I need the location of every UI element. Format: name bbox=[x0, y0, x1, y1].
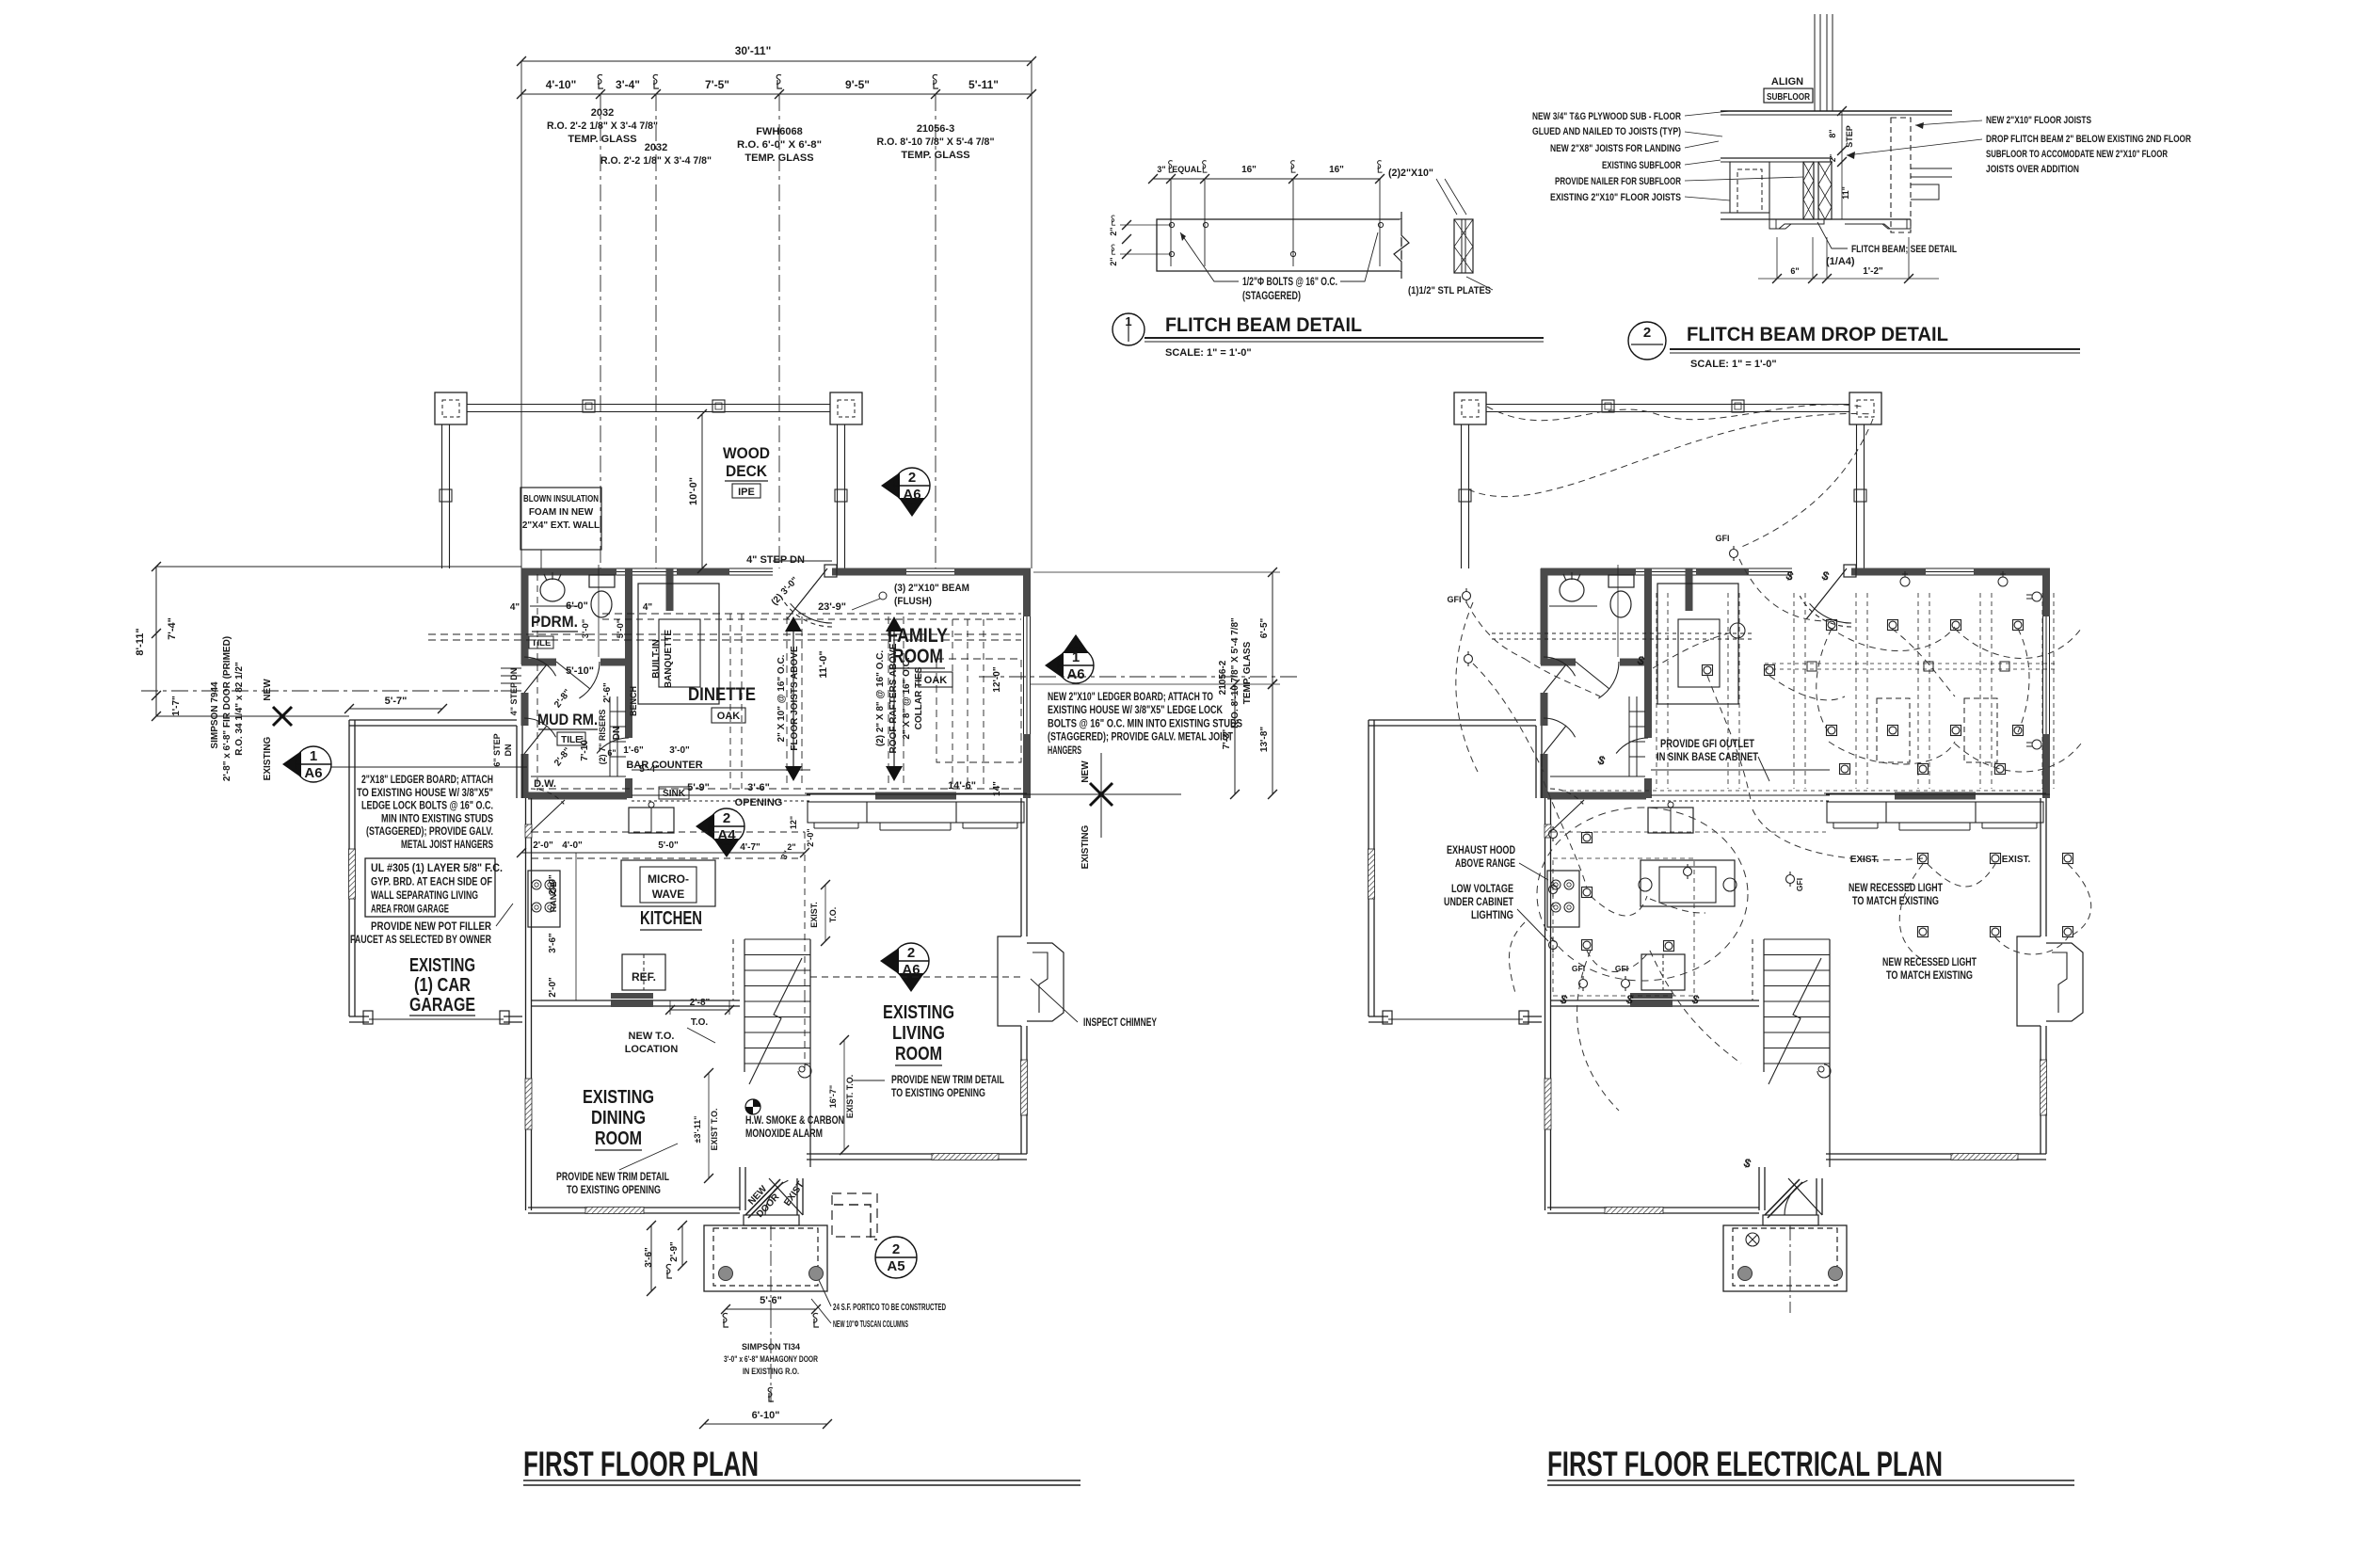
svg-text:1'-7": 1'-7" bbox=[171, 696, 182, 716]
svg-text:4'-0": 4'-0" bbox=[562, 840, 583, 851]
svg-text:4" STEP DN: 4" STEP DN bbox=[509, 668, 519, 716]
svg-text:2": 2" bbox=[1829, 154, 1837, 162]
wood deck posts bbox=[435, 392, 467, 424]
svg-text:2": 2" bbox=[787, 842, 795, 852]
svg-text:PDRM.: PDRM. bbox=[531, 613, 578, 631]
svg-text:(3) 2"X10" BEAM: (3) 2"X10" BEAM bbox=[894, 583, 969, 594]
svg-text:WALL SEPARATING LIVING: WALL SEPARATING LIVING bbox=[371, 890, 478, 902]
built-in cabinets row bbox=[805, 792, 875, 794]
svg-text:EXISTING SUBFLOOR: EXISTING SUBFLOOR bbox=[1602, 160, 1681, 171]
svg-text:EXISTING: EXISTING bbox=[883, 1002, 954, 1023]
living room east wall bbox=[1020, 798, 1022, 936]
svg-text:REF.: REF. bbox=[632, 970, 656, 984]
family room south wall bbox=[875, 792, 956, 800]
svg-text:TEMP. GLASS: TEMP. GLASS bbox=[1242, 641, 1253, 704]
svg-text:ABOVE RANGE: ABOVE RANGE bbox=[1455, 858, 1515, 870]
svg-text:21056-3: 21056-3 bbox=[917, 123, 954, 135]
svg-text:2: 2 bbox=[908, 470, 916, 486]
svg-text:1'-6": 1'-6" bbox=[623, 745, 644, 756]
svg-text:2": 2" bbox=[1109, 227, 1118, 235]
svg-text:LIVING: LIVING bbox=[892, 1023, 945, 1044]
garage walls bbox=[349, 719, 517, 721]
svg-text:9'-5": 9'-5" bbox=[845, 78, 870, 91]
section marker 1/A6 east bbox=[1045, 634, 1094, 683]
svg-text:12'-0": 12'-0" bbox=[992, 666, 1002, 692]
svg-text:GFI: GFI bbox=[1448, 595, 1462, 604]
flitch beam detail drawing bbox=[1157, 219, 1401, 271]
svg-text:TEMP. GLASS: TEMP. GLASS bbox=[568, 134, 636, 145]
svg-text:1: 1 bbox=[310, 748, 317, 764]
svg-text:LIGHTING: LIGHTING bbox=[1471, 910, 1513, 921]
svg-text:FLOOR JOISTS ABOVE: FLOOR JOISTS ABOVE bbox=[790, 646, 800, 751]
kitchen-dining wall bbox=[532, 1000, 740, 1001]
svg-text:DROP FLITCH BEAM 2" BELOW EXIS: DROP FLITCH BEAM 2" BELOW EXISTING 2ND F… bbox=[1986, 134, 2191, 145]
section marker 1/A6 bbox=[282, 746, 331, 782]
svg-text:ALIGN: ALIGN bbox=[1771, 76, 1803, 88]
svg-text:DINETTE: DINETTE bbox=[688, 685, 756, 705]
svg-text:EXIST.: EXIST. bbox=[2002, 855, 2031, 865]
svg-text:2'-8" x 6'-8" FIR DOOR (PRIMED: 2'-8" x 6'-8" FIR DOOR (PRIMED) bbox=[222, 636, 232, 781]
steel plate section bbox=[1454, 219, 1473, 273]
refrigerator bbox=[622, 954, 665, 990]
svg-text:DN: DN bbox=[504, 744, 513, 757]
svg-text:SUBFLOOR TO ACCOMODATE NEW 2"X: SUBFLOOR TO ACCOMODATE NEW 2"X10" FLOOR bbox=[1986, 149, 2168, 160]
svg-text:(STAGGERED); PROVIDE GALV. MET: (STAGGERED); PROVIDE GALV. METAL JOIST bbox=[1048, 732, 1233, 744]
svg-text:2" X 10" @ 16" O.C.: 2" X 10" @ 16" O.C. bbox=[776, 654, 787, 742]
existing recessed lights bbox=[1918, 854, 1929, 864]
svg-text:COLLAR TIES: COLLAR TIES bbox=[914, 666, 924, 729]
svg-text:GARAGE: GARAGE bbox=[409, 995, 475, 1016]
range bbox=[528, 871, 560, 927]
svg-text:FIRST FLOOR ELECTRICAL PLAN: FIRST FLOOR ELECTRICAL PLAN bbox=[1547, 1445, 1943, 1483]
svg-text:PROVIDE NEW TRIM DETAIL: PROVIDE NEW TRIM DETAIL bbox=[556, 1172, 669, 1183]
svg-text:SCALE: 1" = 1'-0": SCALE: 1" = 1'-0" bbox=[1690, 359, 1777, 370]
svg-text:LOCATION: LOCATION bbox=[625, 1044, 679, 1055]
svg-text:NEW: NEW bbox=[263, 679, 273, 701]
svg-text:2"X18" LEDGER BOARD; ATTACH: 2"X18" LEDGER BOARD; ATTACH bbox=[361, 775, 493, 786]
svg-text:2'-0": 2'-0" bbox=[548, 874, 558, 895]
svg-text:STEP: STEP bbox=[1845, 125, 1854, 148]
svg-text:16": 16" bbox=[1329, 165, 1344, 175]
svg-text:3'-0": 3'-0" bbox=[669, 745, 690, 756]
svg-text:DECK: DECK bbox=[726, 462, 768, 480]
svg-text:MICRO-: MICRO- bbox=[648, 872, 689, 886]
svg-text:2'-0": 2'-0" bbox=[533, 840, 553, 851]
svg-text:FOAM IN NEW: FOAM IN NEW bbox=[529, 507, 594, 518]
svg-text:TEMP. GLASS: TEMP. GLASS bbox=[901, 150, 969, 161]
svg-text:A6: A6 bbox=[304, 765, 322, 781]
svg-text:NEW T.O.: NEW T.O. bbox=[629, 1031, 675, 1042]
svg-text:2'-9": 2'-9" bbox=[669, 1241, 680, 1262]
svg-text:BANQUETTE: BANQUETTE bbox=[664, 630, 674, 689]
living room south wall with window bbox=[807, 1153, 932, 1155]
svg-text:GFI: GFI bbox=[1572, 964, 1585, 973]
svg-text:11'-0": 11'-0" bbox=[818, 650, 829, 678]
svg-text:HANGERS: HANGERS bbox=[1048, 745, 1081, 757]
svg-text:IN SINK BASE CABINET: IN SINK BASE CABINET bbox=[1657, 752, 1758, 763]
svg-text:BUILT-IN: BUILT-IN bbox=[651, 639, 662, 678]
dining south wall with window bbox=[528, 1207, 585, 1208]
svg-text:LOW VOLTAGE: LOW VOLTAGE bbox=[1451, 884, 1513, 895]
svg-text:14": 14" bbox=[992, 781, 1002, 796]
svg-text:FLITCH BEAM DETAIL: FLITCH BEAM DETAIL bbox=[1165, 314, 1362, 336]
svg-text:BENCH: BENCH bbox=[629, 686, 638, 716]
svg-text:NEW 2"X10" FLOOR JOISTS: NEW 2"X10" FLOOR JOISTS bbox=[1986, 115, 2091, 126]
deck door to family room bbox=[787, 568, 827, 619]
svg-text:(2) 2" X 8" @ 16" O.C.: (2) 2" X 8" @ 16" O.C. bbox=[875, 650, 886, 747]
section marker 2/A6 deck bbox=[881, 468, 930, 517]
svg-text:3'-4": 3'-4" bbox=[616, 78, 640, 91]
svg-text:T.O.: T.O. bbox=[828, 907, 838, 923]
svg-text:NEW RECESSED LIGHT: NEW RECESSED LIGHT bbox=[1882, 957, 1977, 968]
svg-text:5'-11": 5'-11" bbox=[968, 78, 999, 91]
svg-text:TO EXISTING OPENING: TO EXISTING OPENING bbox=[567, 1185, 661, 1196]
svg-text:6": 6" bbox=[1790, 266, 1799, 276]
svg-text:FAUCET AS SELECTED BY OWNER: FAUCET AS SELECTED BY OWNER bbox=[350, 935, 492, 946]
svg-text:MIN INTO EXISTING STUDS: MIN INTO EXISTING STUDS bbox=[381, 813, 493, 824]
svg-text:BLOWN INSULATION: BLOWN INSULATION bbox=[523, 494, 599, 504]
svg-text:LEDGE LOCK BOLTS @ 16" O.C.: LEDGE LOCK BOLTS @ 16" O.C. bbox=[361, 801, 493, 812]
circuit wiring dashed curves bbox=[1468, 413, 1873, 496]
stairs bbox=[744, 939, 745, 1072]
svg-text:GFI: GFI bbox=[1716, 534, 1730, 543]
svg-text:IPE: IPE bbox=[738, 487, 755, 498]
addition north wall bbox=[521, 568, 616, 576]
smoke alarm bbox=[745, 1099, 760, 1114]
svg-text:2'-0": 2'-0" bbox=[806, 828, 815, 846]
mud room risers bbox=[609, 696, 611, 776]
portico with tuscan columns bbox=[704, 1225, 827, 1291]
svg-text:TO EXISTING OPENING: TO EXISTING OPENING bbox=[891, 1088, 985, 1099]
electrical plan reuse of walls bbox=[1369, 392, 2084, 1313]
recessed light symbols family room bbox=[1827, 620, 1837, 631]
svg-text:OAK: OAK bbox=[924, 675, 948, 686]
svg-text:PROVIDE GFI OUTLET: PROVIDE GFI OUTLET bbox=[1660, 739, 1754, 750]
svg-text:FWH6068: FWH6068 bbox=[756, 126, 803, 137]
svg-text:INSPECT CHIMNEY: INSPECT CHIMNEY bbox=[1083, 1017, 1157, 1029]
section marker 2/A4 bbox=[696, 808, 744, 857]
svg-text:4'-7": 4'-7" bbox=[740, 842, 760, 853]
svg-text:13'-8": 13'-8" bbox=[1259, 727, 1270, 752]
mud room south wall bbox=[528, 792, 627, 800]
svg-text:TEMP. GLASS: TEMP. GLASS bbox=[744, 152, 813, 164]
svg-text:EXISTING: EXISTING bbox=[263, 736, 273, 780]
svg-text:30'-11": 30'-11" bbox=[735, 44, 772, 57]
svg-text:2: 2 bbox=[907, 945, 915, 961]
svg-text:6" STEP: 6" STEP bbox=[492, 733, 502, 766]
svg-text:±3'-11": ±3'-11" bbox=[693, 1116, 702, 1144]
svg-text:2032: 2032 bbox=[591, 107, 614, 119]
svg-text:R.O. 34 1/4" x 82 1/2": R.O. 34 1/4" x 82 1/2" bbox=[234, 662, 245, 756]
svg-text:1/2"Φ BOLTS @ 16" O.C.: 1/2"Φ BOLTS @ 16" O.C. bbox=[1242, 277, 1337, 288]
kitchen counter and sink bbox=[632, 769, 810, 771]
svg-text:3'-6": 3'-6" bbox=[548, 933, 558, 953]
svg-text:A6: A6 bbox=[902, 962, 920, 978]
svg-text:JOISTS OVER ADDITION: JOISTS OVER ADDITION bbox=[1986, 164, 2079, 175]
deck top rail bbox=[467, 404, 830, 406]
svg-text:EXHAUST HOOD: EXHAUST HOOD bbox=[1447, 845, 1515, 856]
svg-text:GFI: GFI bbox=[1795, 878, 1804, 891]
svg-text:TILE: TILE bbox=[561, 735, 582, 745]
svg-text:PROVIDE NAILER FOR SUBFLOOR: PROVIDE NAILER FOR SUBFLOOR bbox=[1555, 176, 1681, 187]
svg-text:R.O. 8'-10 7/8" X 5'-4 7/8": R.O. 8'-10 7/8" X 5'-4 7/8" bbox=[877, 136, 995, 148]
kitchen island with microwave bbox=[621, 860, 715, 906]
svg-text:5'-0": 5'-0" bbox=[616, 619, 626, 639]
svg-text:2"X4" EXT. WALL: 2"X4" EXT. WALL bbox=[522, 520, 600, 531]
svg-text:NEW RECESSED LIGHT: NEW RECESSED LIGHT bbox=[1849, 883, 1943, 894]
svg-text:UNDER CABINET: UNDER CABINET bbox=[1444, 897, 1513, 908]
svg-text:WOOD: WOOD bbox=[723, 444, 770, 462]
svg-text:1: 1 bbox=[1072, 649, 1080, 665]
family room east wall with window bbox=[1023, 568, 1031, 616]
svg-text:EXIST.: EXIST. bbox=[1850, 855, 1880, 865]
svg-text:FIRST FLOOR PLAN: FIRST FLOOR PLAN bbox=[523, 1445, 759, 1483]
svg-text:H.W. SMOKE & CARBON: H.W. SMOKE & CARBON bbox=[745, 1115, 844, 1127]
svg-text:PROVIDE NEW POT FILLER: PROVIDE NEW POT FILLER bbox=[371, 921, 492, 933]
svg-text:2": 2" bbox=[1109, 257, 1118, 265]
GFI outlets bbox=[1463, 588, 1471, 603]
svg-text:7'-10": 7'-10" bbox=[580, 735, 590, 760]
svg-text:11": 11" bbox=[1841, 186, 1850, 200]
svg-text:5'-10": 5'-10" bbox=[566, 665, 594, 677]
svg-text:2'-8": 2'-8" bbox=[690, 998, 711, 1008]
svg-text:2: 2 bbox=[723, 810, 730, 826]
svg-text:METAL JOIST HANGERS: METAL JOIST HANGERS bbox=[401, 840, 493, 851]
svg-text:EXIST.: EXIST. bbox=[809, 902, 819, 928]
dinette lights bbox=[1703, 665, 1713, 676]
svg-text:12": 12" bbox=[789, 816, 798, 829]
svg-text:6'-0": 6'-0" bbox=[566, 600, 588, 612]
svg-text:1: 1 bbox=[1125, 314, 1131, 328]
portico dimensions bbox=[726, 1308, 816, 1310]
kitchen circuit loop bbox=[1537, 808, 1748, 981]
svg-text:R.O. 2'-2 1/8" X 3'-4 7/8": R.O. 2'-2 1/8" X 3'-4 7/8" bbox=[600, 155, 712, 167]
svg-text:7'-4": 7'-4" bbox=[167, 617, 178, 640]
detail 2 title bubble bbox=[1628, 322, 1666, 360]
deck side rails bbox=[441, 424, 443, 568]
svg-text:R.O. 2'-2 1/8" X 3'-4 7/8": R.O. 2'-2 1/8" X 3'-4 7/8" bbox=[547, 120, 658, 132]
insulation note box bbox=[520, 488, 601, 550]
svg-text:4": 4" bbox=[643, 602, 653, 613]
svg-text:OAK: OAK bbox=[717, 711, 741, 722]
svg-text:A5: A5 bbox=[887, 1258, 904, 1274]
svg-text:(STAGGERED): (STAGGERED) bbox=[1242, 291, 1301, 302]
svg-text:8'-11": 8'-11" bbox=[135, 628, 146, 655]
detail 1 title bubble bbox=[1112, 313, 1144, 345]
svg-text:14'-6": 14'-6" bbox=[948, 780, 976, 792]
section marker 2/A6 living bbox=[880, 943, 929, 992]
svg-text:(2) 7" RISERS: (2) 7" RISERS bbox=[598, 710, 607, 765]
svg-text:GYP. BRD. AT EACH SIDE OF: GYP. BRD. AT EACH SIDE OF bbox=[371, 877, 492, 888]
svg-text:TO MATCH EXISTING: TO MATCH EXISTING bbox=[1852, 896, 1939, 907]
svg-text:OPENING: OPENING bbox=[735, 797, 783, 808]
svg-text:R.O. 6'-0" X 6'-8": R.O. 6'-0" X 6'-8" bbox=[737, 139, 822, 151]
powder/mud room east wall bbox=[625, 568, 632, 738]
svg-text:21056-2: 21056-2 bbox=[1218, 660, 1228, 695]
nib wall bbox=[666, 568, 674, 611]
kitchen island pendants bbox=[1639, 878, 1652, 891]
svg-text:AREA FROM GARAGE: AREA FROM GARAGE bbox=[371, 904, 449, 916]
svg-text:SIMPSON 7944: SIMPSON 7944 bbox=[210, 681, 220, 749]
entry doors bbox=[745, 1179, 780, 1215]
svg-text:UL #305 (1) LAYER 5/8" F.C.: UL #305 (1) LAYER 5/8" F.C. bbox=[371, 863, 503, 874]
svg-text:TO MATCH EXISTING: TO MATCH EXISTING bbox=[1886, 970, 1973, 982]
svg-text:DN: DN bbox=[612, 727, 622, 740]
svg-text:6'-10": 6'-10" bbox=[752, 1410, 780, 1421]
overall dimension chain 30-11 bbox=[521, 60, 1032, 62]
svg-text:(1) CAR: (1) CAR bbox=[414, 975, 471, 996]
addition west wall bbox=[521, 568, 529, 664]
svg-text:16": 16" bbox=[1241, 165, 1257, 175]
svg-text:KITCHEN: KITCHEN bbox=[640, 908, 702, 929]
svg-text:DINING: DINING bbox=[591, 1108, 646, 1128]
svg-text:EXISTING HOUSE W/ 3/8"X5" LEDG: EXISTING HOUSE W/ 3/8"X5" LEDGE LOCK bbox=[1048, 705, 1224, 716]
powder room sink bbox=[540, 579, 565, 601]
svg-text:4": 4" bbox=[510, 602, 520, 613]
detail marker 2/A5 bbox=[875, 1237, 917, 1278]
new/existing boundary bbox=[807, 793, 1031, 795]
svg-text:NEW 2"X10" LEDGER BOARD; ATTAC: NEW 2"X10" LEDGER BOARD; ATTACH TO bbox=[1048, 692, 1213, 703]
svg-text:3'-0": 3'-0" bbox=[581, 619, 591, 639]
svg-text:A6: A6 bbox=[1066, 666, 1084, 682]
svg-text:5'-0": 5'-0" bbox=[658, 840, 679, 851]
chimney bbox=[998, 936, 1021, 1026]
joist direction arrows bbox=[792, 630, 794, 768]
UL wall note box bbox=[365, 858, 495, 917]
svg-text:6'-5": 6'-5" bbox=[1259, 617, 1270, 638]
entry vestibule walls bbox=[739, 1167, 741, 1210]
svg-text:2032: 2032 bbox=[645, 142, 667, 153]
powder room toilet bbox=[589, 575, 615, 587]
svg-text:A6: A6 bbox=[903, 487, 920, 503]
svg-text:(1)1/2" STL PLATES: (1)1/2" STL PLATES bbox=[1408, 285, 1491, 296]
svg-text:SUBFLOOR: SUBFLOOR bbox=[1767, 92, 1811, 103]
svg-text:4" STEP DN: 4" STEP DN bbox=[746, 554, 805, 566]
svg-text:TO EXISTING HOUSE W/ 3/8"X5": TO EXISTING HOUSE W/ 3/8"X5" bbox=[357, 788, 493, 799]
built-in banquette bbox=[638, 584, 719, 704]
svg-text:ROOM: ROOM bbox=[892, 646, 943, 667]
svg-text:EXISTING: EXISTING bbox=[409, 955, 475, 976]
svg-text:ROOF RAFTERS ABOVE: ROOF RAFTERS ABOVE bbox=[888, 643, 899, 753]
svg-text:EQUAL: EQUAL bbox=[1172, 165, 1202, 174]
svg-text:FLITCH BEAM DROP DETAIL: FLITCH BEAM DROP DETAIL bbox=[1687, 324, 1948, 345]
svg-text:(FLUSH): (FLUSH) bbox=[894, 596, 932, 607]
svg-text:A4: A4 bbox=[717, 827, 736, 843]
svg-text:2: 2 bbox=[1643, 325, 1651, 341]
svg-text:NEW 2"X8" JOISTS FOR LANDING: NEW 2"X8" JOISTS FOR LANDING bbox=[1550, 143, 1681, 154]
svg-text:2'-0": 2'-0" bbox=[548, 977, 558, 998]
svg-text:24 S.F. PORTICO TO BE CONSTRUC: 24 S.F. PORTICO TO BE CONSTRUCTED bbox=[833, 1302, 946, 1313]
svg-text:GLUED AND NAILED TO JOISTS (TY: GLUED AND NAILED TO JOISTS (TYP) bbox=[1532, 126, 1681, 137]
svg-text:5'-7": 5'-7" bbox=[385, 696, 408, 707]
svg-text:SINK: SINK bbox=[663, 789, 686, 799]
svg-text:NEW 10"Φ TUSCAN COLUMNS: NEW 10"Φ TUSCAN COLUMNS bbox=[833, 1319, 908, 1330]
svg-text:10'-0": 10'-0" bbox=[688, 477, 699, 505]
svg-text:(1/A4): (1/A4) bbox=[1826, 256, 1855, 267]
svg-text:EXISTING: EXISTING bbox=[1080, 824, 1091, 869]
centerline and texture dashes bbox=[770, 1313, 772, 1402]
svg-text:MONOXIDE ALARM: MONOXIDE ALARM bbox=[745, 1128, 823, 1140]
svg-text:WAVE: WAVE bbox=[652, 888, 684, 901]
svg-text:2'-6": 2'-6" bbox=[602, 682, 613, 703]
svg-text:PROVIDE NEW TRIM DETAIL: PROVIDE NEW TRIM DETAIL bbox=[891, 1075, 1004, 1086]
svg-text:3'-6": 3'-6" bbox=[747, 782, 770, 793]
powder room south wall bbox=[521, 659, 556, 666]
svg-text:3'-6": 3'-6" bbox=[644, 1247, 654, 1268]
svg-text:NEW 3/4" T&G PLYWOOD SUB - FLO: NEW 3/4" T&G PLYWOOD SUB - FLOOR bbox=[1532, 111, 1681, 122]
svg-text:ROOM: ROOM bbox=[895, 1044, 942, 1064]
svg-text:5'-6": 5'-6" bbox=[760, 1295, 782, 1306]
svg-text:T.O.: T.O. bbox=[691, 1017, 709, 1028]
svg-text:8": 8" bbox=[1828, 129, 1837, 137]
svg-text:6": 6" bbox=[607, 748, 616, 758]
svg-text:7'-5": 7'-5" bbox=[705, 78, 729, 91]
svg-text:SCALE: 1" = 1'-0": SCALE: 1" = 1'-0" bbox=[1165, 347, 1252, 359]
svg-text:BOLTS @ 16" O.C. MIN INTO EXIS: BOLTS @ 16" O.C. MIN INTO EXISTING STUDS bbox=[1048, 718, 1242, 729]
kitchen lights bbox=[1582, 833, 1593, 843]
flitch beam drop detail drawing bbox=[1814, 14, 1816, 111]
svg-text:2: 2 bbox=[892, 1241, 900, 1257]
svg-text:(2)2"X10": (2)2"X10" bbox=[1388, 168, 1433, 179]
svg-text:NEW: NEW bbox=[1080, 760, 1091, 783]
wall sconces bbox=[1900, 571, 1910, 586]
svg-text:5'-9": 5'-9" bbox=[687, 782, 710, 793]
svg-text:ROOM: ROOM bbox=[595, 1128, 642, 1149]
existing west wall bbox=[525, 798, 527, 824]
svg-text:EXIST. T.O.: EXIST. T.O. bbox=[845, 1075, 855, 1119]
svg-text:FLITCH BEAM; SEE DETAIL: FLITCH BEAM; SEE DETAIL bbox=[1851, 244, 1957, 255]
svg-text:EXIST T.O.: EXIST T.O. bbox=[710, 1108, 719, 1150]
svg-text:EXISTING: EXISTING bbox=[583, 1087, 654, 1108]
svg-text:(STAGGERED); PROVIDE GALV.: (STAGGERED); PROVIDE GALV. bbox=[366, 826, 493, 838]
svg-text:EXISTING 2"X10" FLOOR JOISTS: EXISTING 2"X10" FLOOR JOISTS bbox=[1550, 192, 1681, 203]
svg-text:5'-4": 5'-4" bbox=[639, 764, 660, 775]
svg-text:3": 3" bbox=[1157, 165, 1165, 174]
svg-text:16'-7": 16'-7" bbox=[828, 1085, 838, 1108]
svg-text:4'-10": 4'-10" bbox=[546, 78, 577, 91]
windows in north wall bbox=[616, 568, 677, 569]
left side dimensions bbox=[155, 567, 157, 716]
svg-text:BAR COUNTER: BAR COUNTER bbox=[626, 760, 702, 771]
svg-text:7'-3": 7'-3" bbox=[1222, 728, 1232, 749]
entry ceiling light bbox=[1746, 1233, 1759, 1246]
svg-text:1'-2": 1'-2" bbox=[1863, 266, 1883, 277]
svg-text:23'-9": 23'-9" bbox=[818, 601, 846, 613]
svg-text:MUD RM.: MUD RM. bbox=[537, 711, 598, 728]
